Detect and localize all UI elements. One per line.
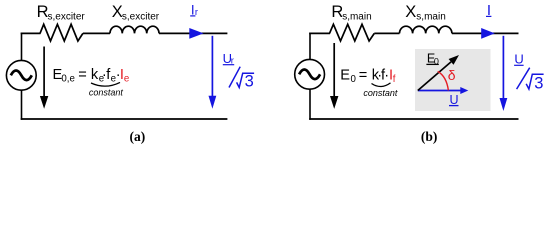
svg-text:U: U xyxy=(514,51,523,66)
svg-text:f: f xyxy=(393,74,396,85)
svg-text:constant: constant xyxy=(89,88,124,98)
AC source V1 (a) circle xyxy=(6,60,36,90)
wire: (a) source bottom to bottom rail xyxy=(21,90,23,120)
svg-text:s,main: s,main xyxy=(416,12,445,23)
voltage arrow E0,e (black, downward) xyxy=(43,47,45,99)
wire: (a) top rail left segment xyxy=(21,32,41,34)
current arrowhead I (b) xyxy=(481,28,495,39)
svg-text:=: = xyxy=(78,67,87,83)
wire: (b) top-left corner vertical xyxy=(309,33,311,60)
svg-text:U: U xyxy=(450,93,459,107)
phasor diagram gray box xyxy=(415,49,491,111)
svg-text:0: 0 xyxy=(351,74,357,85)
phasor U arrow (blue) xyxy=(418,90,462,92)
resistor Rs,main xyxy=(330,24,375,41)
svg-text:=: = xyxy=(359,67,368,83)
svg-text:s,exciter: s,exciter xyxy=(48,12,86,23)
svg-text:E: E xyxy=(340,67,350,83)
inductor Xs,exciter xyxy=(110,26,159,33)
svg-text:s,main: s,main xyxy=(342,12,371,23)
svg-text:(b): (b) xyxy=(421,129,438,144)
wire: (b) top rail right segment xyxy=(452,32,519,34)
inductor Xs,main xyxy=(400,26,452,33)
angle delta arc (red) xyxy=(438,71,449,90)
current arrowhead Ir (a) xyxy=(189,28,203,39)
wire: (a) top rail right segment xyxy=(159,32,227,34)
wire: (b) top rail left segment xyxy=(309,32,330,34)
wire: (b) source bottom to bottom rail xyxy=(309,89,311,120)
wire: (a) top rail between R and X xyxy=(83,32,110,34)
svg-text:X: X xyxy=(405,3,416,21)
underbrace (a) xyxy=(91,82,120,86)
voltage arrow U/sqrt3 (blue) xyxy=(502,36,504,99)
svg-text:0,e: 0,e xyxy=(61,73,74,84)
voltage arrow E0 (b) (black, downward) xyxy=(333,43,335,98)
wire: (a) top-left corner vertical xyxy=(21,33,23,61)
AC source V1 (a) sine symbol xyxy=(11,71,32,81)
svg-text:3: 3 xyxy=(245,72,254,90)
svg-text:e: e xyxy=(124,73,129,84)
svg-text:δ: δ xyxy=(448,67,456,83)
svg-text:(a): (a) xyxy=(130,129,146,144)
voltage arrow Ur/sqrt3 (blue) xyxy=(211,36,213,98)
underbrace (b) xyxy=(372,83,391,87)
wire: (b) top rail between R and X xyxy=(374,32,399,34)
AC source V2 (b) sine symbol xyxy=(299,70,320,80)
AC source V2 (b) circle xyxy=(295,59,325,89)
phasor E0 arrow (black) xyxy=(418,62,451,91)
resistor Rs,exciter xyxy=(40,24,83,41)
svg-text:s,exciter: s,exciter xyxy=(122,12,160,23)
svg-text:0: 0 xyxy=(434,57,439,67)
svg-text:r: r xyxy=(195,7,198,18)
wire: (b) bottom rail xyxy=(309,118,518,120)
svg-text:3: 3 xyxy=(534,74,543,92)
svg-text:k: k xyxy=(91,67,99,83)
svg-text:constant: constant xyxy=(363,88,398,98)
wire: (a) bottom rail xyxy=(21,118,228,120)
